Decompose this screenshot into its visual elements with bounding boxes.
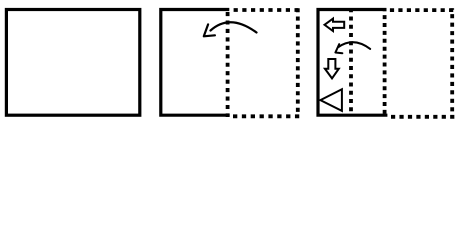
panel 2 dotted right edge <box>296 8 300 112</box>
panel 2 curved flip arrow <box>211 22 257 32</box>
panel 3 dotted bottom edge <box>391 115 454 119</box>
panel 3 outline triangle left <box>320 89 342 111</box>
panel 1 solid rectangle (closed page) <box>6 10 139 116</box>
panel 3 small curved flip arrow <box>339 42 371 49</box>
panel 3 dotted fold line (right edge of solid page) <box>383 8 387 114</box>
panel 2 solid page outline (left, top, bottom) <box>161 10 230 116</box>
panel 3 dotted right edge <box>450 8 454 112</box>
panel 3 dotted divider (inner vertical) <box>349 8 353 114</box>
panel 2 dotted top edge <box>234 8 299 12</box>
panel 3 outline arrow left <box>325 19 345 31</box>
panel 3 solid page outline (left, top, bottom) <box>318 10 387 116</box>
panel 3 dotted top edge <box>390 8 454 12</box>
panel 2 dotted bottom edge <box>233 114 299 118</box>
panel 3 outline arrow down <box>325 59 339 78</box>
panel 2 dotted fold line (vertical middle) <box>226 12 230 117</box>
